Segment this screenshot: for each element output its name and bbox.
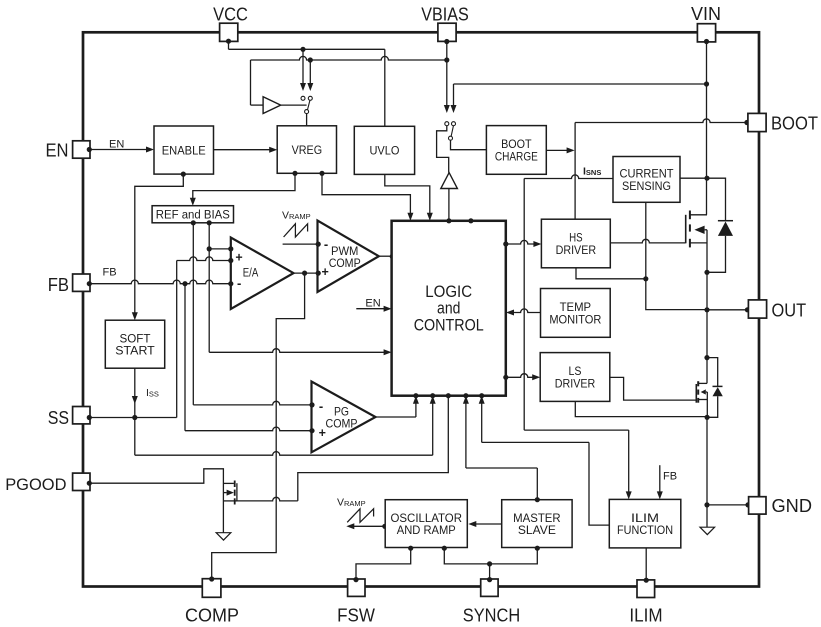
- pin BOOT: [748, 113, 818, 133]
- wire CS down: [643, 202, 648, 281]
- svg-text:VREG: VREG: [292, 143, 323, 157]
- svg-text:MONITOR: MONITOR: [549, 312, 601, 326]
- pin FB: [73, 274, 92, 291]
- amplifier to logic: [441, 173, 458, 221]
- svg-text:BOOT: BOOT: [771, 114, 818, 134]
- label FB pin: [48, 275, 69, 295]
- pin VCC: [220, 23, 238, 44]
- block UVLO: [354, 126, 414, 174]
- ground symbol PGOOD: [216, 533, 231, 540]
- transistor PGOOD FET: [223, 481, 237, 505]
- label EN signal: [109, 139, 124, 151]
- wire HS DRIVER bottom: [576, 268, 646, 279]
- svg-text:REF and BIAS: REF and BIAS: [156, 208, 230, 222]
- wire LOGIC to MASTER SLAVE: [463, 396, 540, 503]
- transistor LS FET: [696, 381, 707, 417]
- svg-text:SYNCH: SYNCH: [463, 606, 520, 626]
- svg-text:EN: EN: [109, 139, 124, 151]
- svg-text:VRAMP: VRAMP: [282, 210, 311, 222]
- wire CS to OUT: [646, 279, 707, 310]
- label PGOOD pin: [5, 475, 66, 494]
- wire BOOT CHARGE out: [546, 147, 574, 153]
- wire VREG to LOGIC: [319, 171, 413, 221]
- label ISNS: [583, 166, 601, 178]
- block LOGIC and CONTROL: [392, 221, 506, 396]
- pin FSW: [337, 577, 375, 626]
- svg-text:DRIVER: DRIVER: [556, 243, 597, 257]
- sawtooth ramp bottom: [347, 509, 373, 523]
- svg-text:-: -: [237, 276, 241, 291]
- block ENABLE: [154, 126, 214, 174]
- wire FSW to OSC: [356, 546, 413, 580]
- wire PWM COMP to LOGIC: [379, 254, 395, 259]
- wire switch to amp: [437, 126, 449, 173]
- wire OSC ramp out: [346, 523, 387, 529]
- svg-text:FUNCTION: FUNCTION: [617, 523, 673, 537]
- block SOFT START: [105, 320, 164, 368]
- wire ISNS: [524, 175, 613, 430]
- wire VBIAS to buffer input: [251, 56, 447, 105]
- pin ILIM: [629, 578, 662, 626]
- wire E/A output: [294, 271, 318, 276]
- label EN pin: [46, 141, 69, 161]
- block REF and BIAS: [152, 206, 233, 223]
- IC boundary box: [83, 32, 759, 586]
- pin VIN: [697, 24, 715, 44]
- wire VIN rail: [704, 42, 710, 215]
- sawtooth ramp top: [284, 224, 308, 237]
- wire PG COMP to LOGIC: [376, 396, 419, 417]
- wire SS line: [89, 417, 176, 419]
- wire LS gate: [610, 377, 696, 400]
- pin GND: [707, 496, 812, 516]
- svg-text:COMP: COMP: [326, 417, 358, 431]
- PG COMP input junction dots: [309, 402, 314, 433]
- wire EN into LOGIC: [356, 297, 391, 311]
- wire CS to VIN rail: [680, 177, 707, 179]
- wire UVLO to LOGIC: [385, 174, 433, 220]
- wire LOGIC to ILIM FUNCTION: [479, 396, 610, 525]
- wire SYNCH to OSC and MS: [442, 546, 540, 580]
- svg-text:GND: GND: [772, 496, 813, 516]
- buffer amplifier: [263, 97, 307, 114]
- wire VREG to REF and BIAS: [190, 171, 298, 206]
- wire LOGIC to LS DRIVER: [506, 374, 540, 381]
- svg-text:VBIAS: VBIAS: [421, 5, 469, 25]
- wire LOGIC to HS DRIVER: [506, 240, 542, 247]
- pin SYNCH: [463, 577, 520, 626]
- svg-text:FB: FB: [663, 471, 677, 483]
- svg-text:E/A: E/A: [243, 266, 259, 280]
- label VBIAS: [421, 5, 469, 25]
- svg-text:+: +: [235, 251, 242, 265]
- block VREG: [277, 126, 336, 174]
- svg-text:ENABLE: ENABLE: [162, 143, 206, 157]
- svg-text:FSW: FSW: [337, 606, 375, 626]
- wire HS gate: [610, 239, 685, 243]
- svg-text:OUT: OUT: [772, 301, 807, 321]
- svg-text:SENSING: SENSING: [622, 179, 671, 193]
- svg-text:EN: EN: [46, 141, 69, 161]
- wire REF down to LOGIC: [191, 220, 196, 405]
- wire E/A out to COMP pin: [212, 273, 305, 578]
- svg-text:SLAVE: SLAVE: [518, 523, 556, 537]
- pin OUT: [704, 300, 806, 321]
- wire REF to PG comp minus: [193, 401, 311, 405]
- block OSCILLATOR AND RAMP: [385, 500, 467, 548]
- wire LS DRIVER bottom: [575, 401, 707, 416]
- wire BOOT line: [575, 119, 749, 219]
- wire TEMP to LOGIC: [506, 309, 541, 316]
- block BOOT CHARGE: [486, 126, 546, 175]
- svg-text:CONTROL: CONTROL: [414, 315, 484, 334]
- label FB signal: [103, 267, 117, 279]
- svg-text:-: -: [324, 236, 328, 251]
- svg-text:ILIM: ILIM: [629, 606, 662, 626]
- wire switch node down: [704, 310, 709, 384]
- E/A input junction dots: [228, 246, 233, 286]
- LOGIC right dots: [503, 241, 508, 380]
- comparator PWM COMP: [318, 221, 379, 292]
- svg-text:COMP: COMP: [329, 256, 361, 270]
- op-amp E/A: [231, 238, 294, 310]
- diode LS body: [705, 358, 723, 420]
- LOGIC bottom dots: [413, 393, 484, 398]
- label Vramp top: [282, 210, 311, 222]
- wire REF right vertical to LOGIC: [209, 249, 391, 355]
- ground symbol main: [700, 527, 715, 534]
- comparator PG COMP: [312, 382, 376, 453]
- VCC switch throw from VBIAS line: [307, 60, 313, 100]
- wire Iss to SS line: [132, 368, 138, 420]
- pin COMP: [185, 576, 239, 625]
- svg-text:PGOOD: PGOOD: [5, 475, 66, 494]
- wire VBIAS down: [444, 41, 450, 126]
- svg-text:+: +: [319, 426, 326, 440]
- svg-text:FB: FB: [103, 267, 117, 279]
- block CURRENT SENSING: [613, 157, 680, 203]
- label VIN: [691, 4, 721, 24]
- block HS DRIVER: [541, 219, 610, 268]
- svg-text:FB: FB: [48, 275, 69, 295]
- svg-text:CHARGE: CHARGE: [495, 149, 538, 163]
- wire VCC to UVLO: [229, 41, 385, 126]
- pin EN: [73, 141, 92, 158]
- block ILIM FUNCTION: [609, 499, 681, 548]
- svg-text:VCC: VCC: [213, 5, 248, 25]
- svg-text:VIN: VIN: [691, 4, 721, 24]
- pin SS: [73, 407, 92, 424]
- svg-text:DRIVER: DRIVER: [555, 376, 596, 390]
- VBIAS switch pole: [449, 126, 487, 150]
- wire ENABLE to VREG: [214, 147, 278, 153]
- wire FB stub to ILIM: [657, 465, 677, 499]
- svg-text:AND RAMP: AND RAMP: [397, 523, 456, 537]
- svg-text:UVLO: UVLO: [369, 144, 399, 158]
- block LS DRIVER: [540, 353, 610, 402]
- pin PGOOD: [73, 473, 92, 490]
- wire SS to E/A plus: [177, 257, 231, 418]
- svg-text:EN: EN: [365, 297, 380, 309]
- wire PGOOD to FET: [89, 469, 223, 533]
- wire PGOOD FET to LOGIC: [237, 396, 448, 501]
- LOGIC top dots: [446, 218, 473, 223]
- wire FB to E/A minus: [89, 280, 231, 286]
- VCC switch pole: [305, 100, 310, 125]
- label Vramp bottom: [337, 497, 366, 509]
- wire ISNS to ILIM: [524, 430, 632, 499]
- svg-text:VRAMP: VRAMP: [337, 497, 366, 509]
- VCC switch throw from VCC: [300, 49, 306, 100]
- wire LS source to GND: [704, 417, 709, 527]
- PWM COMP input junction dots: [316, 242, 321, 276]
- svg-text:+: +: [322, 265, 329, 279]
- pin VBIAS: [438, 23, 456, 44]
- svg-text:START: START: [115, 344, 155, 358]
- wire VIN to VBIAS switch: [451, 84, 707, 126]
- junction on VBIAS buffer line: [308, 57, 313, 62]
- transistor HS FET: [686, 211, 707, 310]
- wire EN to ENABLE: [89, 147, 154, 153]
- wire SS to LOGIC: [135, 396, 436, 456]
- block TEMP MONITOR: [541, 289, 611, 338]
- svg-text:SS: SS: [48, 408, 69, 428]
- label VCC: [213, 5, 248, 25]
- svg-text:COMP: COMP: [185, 606, 239, 626]
- label SS pin: [48, 408, 69, 428]
- wire ENABLE to SOFT START: [132, 172, 186, 321]
- diode HS body: [704, 178, 733, 275]
- junction on VCC rail: [300, 47, 305, 52]
- label Iss: [146, 387, 159, 399]
- wire MS to OSC: [468, 521, 501, 527]
- svg-text:ISS: ISS: [146, 387, 159, 399]
- wire REF to E/A plus: [207, 220, 231, 251]
- wire ILIM FUNCTION to pin: [645, 548, 647, 580]
- block MASTER SLAVE: [502, 500, 572, 548]
- svg-text:ISNS: ISNS: [583, 166, 601, 178]
- wire Vramp to PWM comp: [283, 243, 318, 245]
- wire FB down to PG comp plus: [185, 284, 312, 431]
- svg-text:-: -: [319, 398, 323, 413]
